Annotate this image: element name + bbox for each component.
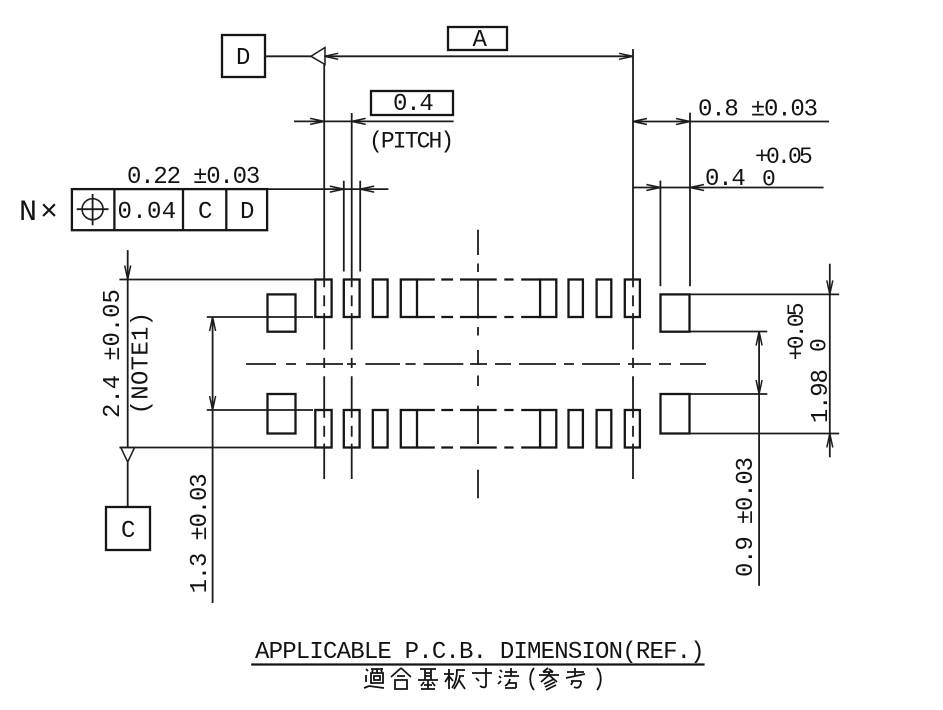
large pad top left (268, 294, 296, 331)
svg-text:(NOTE1): (NOTE1) (129, 312, 156, 415)
extension line right large pad top-bottom (690, 331, 768, 333)
dimension line 1.98 vertical (829, 264, 831, 458)
kanji ki (418, 669, 438, 689)
kanji ban (444, 669, 465, 689)
pad 2 bottom (344, 410, 360, 448)
close paren (597, 668, 601, 690)
dimension line 0.8 (633, 121, 829, 123)
0.8 arrow right (676, 119, 690, 125)
horizontal centerline (246, 363, 706, 365)
kanji sun (472, 668, 492, 687)
pad 1 bottom (315, 410, 331, 448)
svg-text:APPLICABLE P.C.B. DIMENSION(RE: APPLICABLE P.C.B. DIMENSION(REF.) (255, 639, 704, 666)
extension line right large pad bottom-top (690, 393, 768, 395)
position symbol (77, 194, 109, 225)
svg-text:0.9 ±0.03: 0.9 ±0.03 (733, 458, 760, 577)
svg-text:1.98: 1.98 (808, 370, 835, 423)
extension line right large pad top-top (690, 293, 840, 295)
pad 3 top (373, 280, 388, 318)
0.22 extension line right (359, 181, 361, 272)
pad 7 bottom (597, 410, 612, 448)
svg-text:C: C (121, 518, 135, 545)
leader from D box (265, 55, 311, 57)
svg-text:D: D (240, 199, 254, 226)
kanji hou (498, 668, 519, 688)
leader to C box (127, 462, 129, 507)
kanji gou (391, 668, 411, 689)
svg-text:D: D (236, 45, 250, 72)
dimension line 0.4 right (633, 187, 824, 189)
large pad bottom right (661, 394, 690, 434)
svg-text:0.8 ±0.03: 0.8 ±0.03 (698, 97, 817, 124)
svg-text:(PITCH): (PITCH) (369, 129, 452, 155)
pitch arrow right (352, 118, 366, 124)
pad 5 top (540, 280, 556, 318)
svg-text:0.4: 0.4 (705, 166, 745, 193)
pad 8 top (625, 280, 640, 318)
pad 5 bottom (540, 410, 556, 448)
feature control frame (72, 189, 267, 230)
dimension line 2.4 vertical (127, 250, 129, 447)
pitch label box 0.4 (371, 91, 453, 118)
0.9 arrow down (756, 380, 762, 394)
svg-text:0.04: 0.04 (118, 199, 177, 226)
extension line x=660.4 (659, 181, 661, 287)
svg-text:0.4: 0.4 (393, 91, 433, 118)
dimension line A (324, 55, 633, 57)
pad centerline x=633 (632, 49, 634, 479)
dimension line 0.9 vertical (758, 332, 760, 586)
open paren (530, 668, 534, 690)
svg-text:2.4 ±0.05: 2.4 ±0.05 (100, 289, 127, 418)
top row broken continuation edges (417, 280, 540, 318)
pad 4 bottom (401, 410, 417, 448)
svg-text:C: C (198, 199, 212, 226)
vertical centerline (477, 230, 479, 499)
0.9 arrow up (756, 332, 762, 346)
large pad bottom left (268, 394, 296, 434)
1.3 arrow down (210, 396, 216, 410)
extension line right large pad bottom-bottom (690, 433, 840, 435)
pad 6 bottom (569, 410, 583, 448)
kanji teki (364, 669, 384, 688)
pad centerline x=351.7 (351, 113, 353, 479)
dimension line 0.22 (72, 188, 389, 190)
datum box C (106, 507, 150, 550)
extension line top outer left (119, 279, 315, 281)
arrowhead A right (619, 53, 633, 59)
extension line bottom inner left (207, 409, 313, 411)
dimension label box A (448, 27, 507, 54)
pitch arrow left (310, 118, 324, 124)
0.22 extension line left (343, 181, 345, 272)
kanji kou (566, 668, 585, 688)
pad 2 top (344, 280, 360, 318)
svg-text:0.22 ±0.03: 0.22 ±0.03 (127, 164, 259, 191)
0.8 arrow left (633, 119, 647, 125)
pad 1 top (315, 280, 331, 318)
title underline (251, 663, 704, 665)
0.4R arrow right (690, 185, 704, 191)
pad 7 top (597, 280, 612, 318)
0.4R arrow left (646, 185, 660, 191)
pad 4 top (401, 280, 417, 318)
datum triangle C (121, 448, 135, 463)
extension line x=690 (689, 113, 691, 287)
dimension line 1.3 vertical (212, 317, 214, 603)
pad 8 bottom (625, 410, 640, 448)
2.4 arrow down (125, 266, 131, 280)
1.3 arrow up (210, 317, 216, 331)
svg-text:A: A (473, 27, 488, 54)
0.22 arrow right (360, 186, 374, 192)
japanese subtitle (drawn glyphs) (364, 668, 601, 690)
pad 6 top (569, 280, 583, 318)
datum box D (222, 35, 265, 77)
pad 3 bottom (373, 410, 388, 448)
0.22 arrow left (330, 186, 344, 192)
extension line bottom outer left (119, 447, 315, 449)
large pad top right (661, 294, 690, 331)
svg-text:N×: N× (19, 196, 61, 230)
1.98 arrow down (827, 280, 833, 294)
1.98 arrow up (827, 434, 833, 448)
top pad row rectangles (315, 280, 640, 318)
bottom row broken continuation edges (417, 410, 540, 448)
pad centerline x=324.2 (323, 65, 325, 480)
extension line top inner left (207, 316, 313, 318)
kanji san (539, 668, 559, 690)
datum triangle on extension line (311, 48, 325, 65)
pitch dimension line (294, 120, 454, 122)
bottom pad row rectangles (315, 410, 640, 448)
arrowhead A left (324, 53, 338, 59)
svg-text:1.3 ±0.03: 1.3 ±0.03 (187, 475, 214, 594)
